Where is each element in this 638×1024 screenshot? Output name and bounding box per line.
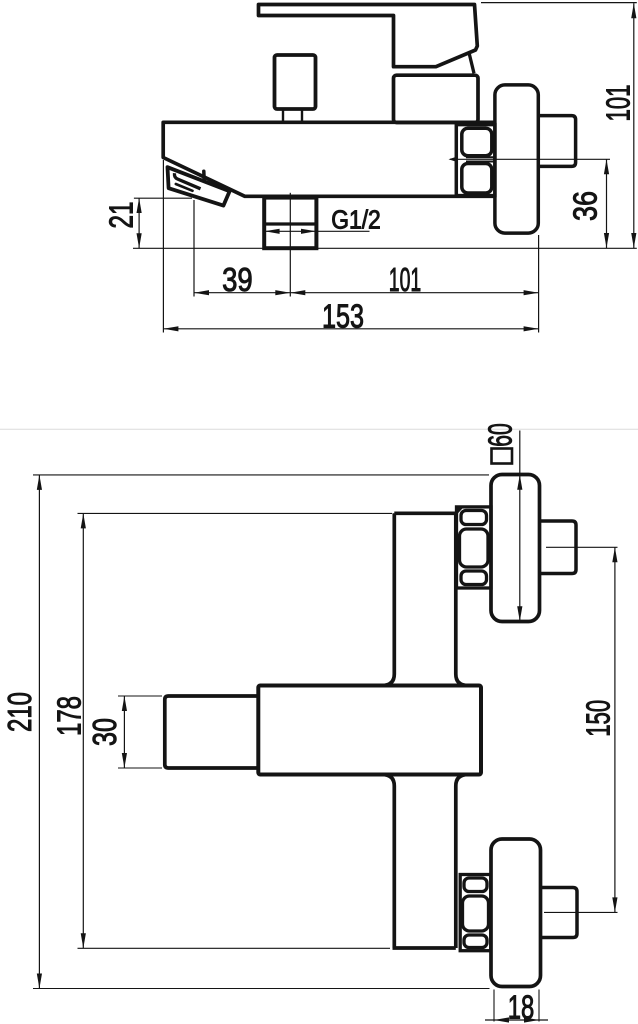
- dimension row 39 / 101: [193, 200, 195, 297]
- left spout box: [165, 696, 258, 768]
- svg-text:18: 18: [508, 989, 535, 1024]
- body column lower: [382, 775, 394, 949]
- svg-text:101: 101: [389, 261, 421, 298]
- spout cap: [168, 167, 230, 205]
- dimension 36: [606, 159, 608, 248]
- top centerline: [546, 546, 618, 548]
- bottom hex nut (front view): [460, 875, 491, 951]
- svg-text:150: 150: [579, 700, 616, 737]
- dimension 21: [138, 198, 140, 248]
- bottom outlet: [264, 198, 316, 249]
- bottom escutcheon: [491, 839, 541, 987]
- baseline extension: [133, 247, 637, 249]
- dimension 18: [493, 990, 495, 1022]
- cartridge housing: [394, 75, 479, 122]
- svg-text:101: 101: [599, 85, 636, 122]
- button stem: [282, 109, 284, 121]
- body column upper: [394, 511, 456, 515]
- bottom nipple: [541, 888, 578, 938]
- svg-text:178: 178: [51, 696, 88, 736]
- hex nut (side view): [456, 125, 495, 196]
- bottom centerline: [544, 911, 618, 913]
- lever handle: [259, 5, 478, 67]
- svg-text:36: 36: [567, 191, 604, 221]
- svg-text:60: 60: [482, 423, 519, 447]
- spout aerator slot: [176, 184, 193, 191]
- dimension square 60: [519, 431, 521, 622]
- handle hinge line: [469, 54, 474, 74]
- body middle box: [258, 686, 481, 775]
- spout stub: [202, 171, 206, 181]
- wall escutcheon (side view): [495, 85, 538, 233]
- top hex nut (front view): [457, 507, 492, 588]
- dimension G1/2: [264, 230, 369, 232]
- dimension 210: [33, 474, 489, 476]
- dimension 30: [118, 695, 162, 697]
- dimension 101 vertical: [481, 2, 637, 4]
- spout inner tube edge: [174, 173, 200, 189]
- dimension 153: [162, 160, 164, 333]
- dimension 178: [78, 512, 393, 514]
- svg-text:39: 39: [222, 261, 253, 298]
- svg-text:210: 210: [1, 692, 38, 732]
- wall nipple (side view): [538, 116, 575, 167]
- dimension 150: [614, 547, 616, 912]
- svg-text:G1/2: G1/2: [331, 205, 381, 235]
- faucet body (side view): [163, 122, 495, 196]
- svg-text:30: 30: [86, 718, 123, 746]
- diverter button: [275, 55, 316, 109]
- centerline: [450, 158, 610, 160]
- svg-text:153: 153: [322, 297, 364, 334]
- column-to-hex chamfer: [456, 507, 462, 513]
- top escutcheon: [491, 475, 540, 622]
- outlet inner line: [264, 222, 316, 225]
- faint fold line: [0, 428, 638, 430]
- svg-text:21: 21: [103, 202, 140, 229]
- top nipple: [540, 521, 577, 574]
